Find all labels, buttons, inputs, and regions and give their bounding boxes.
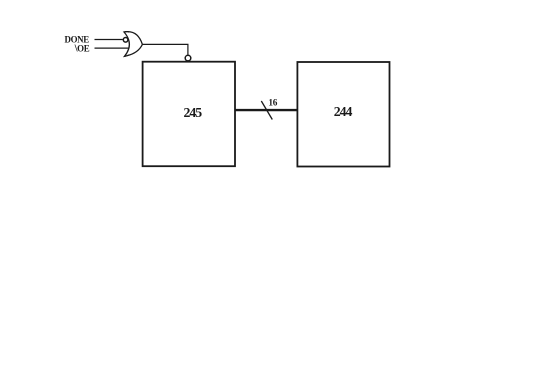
svg-text:\OE: \OE — [74, 43, 90, 54]
svg-text:244: 244 — [334, 104, 353, 119]
svg-text:245: 245 — [183, 105, 202, 120]
inversion bubble on DONE input — [123, 38, 128, 43]
wire: gate output (horizontal then down) — [142, 44, 188, 54]
block 244 (buffer) — [297, 62, 389, 167]
wire: \OE input — [95, 47, 130, 49]
OR gate — [124, 32, 142, 57]
svg-text:16: 16 — [268, 99, 277, 109]
bus wire (16-bit data bus) — [235, 109, 298, 111]
active-low enable bubble at top of 245 — [185, 55, 191, 61]
OR gate bottom-tip overshoot stroke — [125, 55, 129, 56]
wire: DONE input — [95, 39, 123, 41]
block 245 (transceiver) — [143, 62, 235, 167]
OR gate top-tip overshoot stroke — [124, 31, 129, 34]
bus width slash — [261, 101, 272, 120]
